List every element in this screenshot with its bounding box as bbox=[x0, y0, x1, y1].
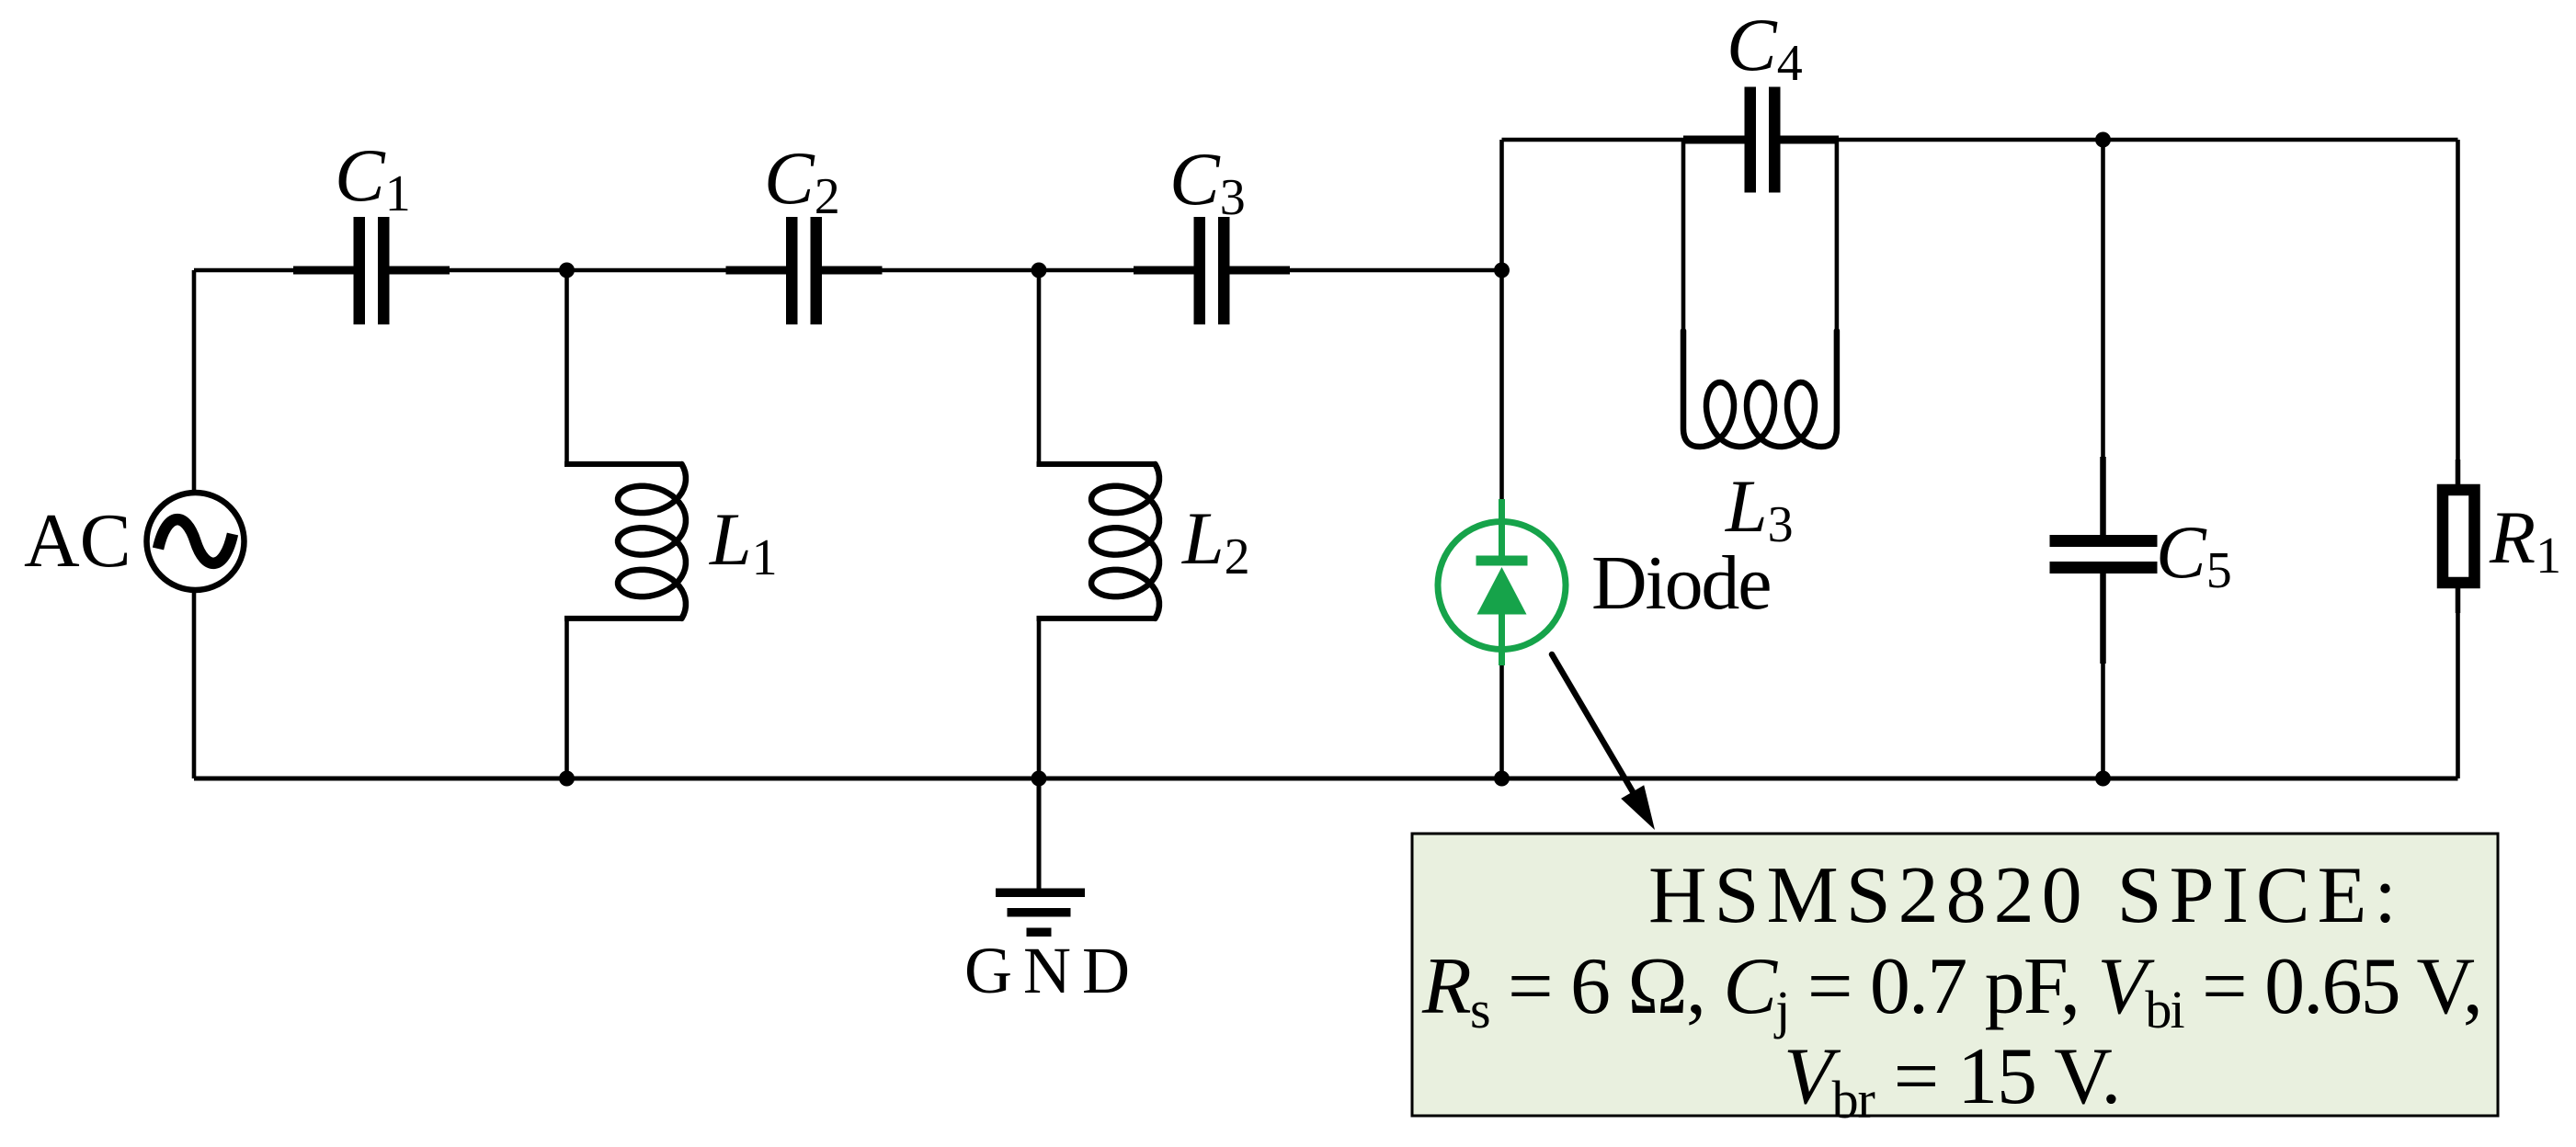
svg-text:Rs = 6 Ω, Cj = 0.7 pF, Vbi = 0: Rs = 6 Ω, Cj = 0.7 pF, Vbi = 0.65 V, bbox=[1421, 942, 2481, 1039]
capacitor C5 leads bbox=[2100, 457, 2106, 664]
node C junction dot bbox=[1494, 263, 1510, 278]
node B junction dot bbox=[1032, 263, 1047, 278]
wire top left horizontal bbox=[194, 268, 365, 273]
SPICE parameter box bbox=[1412, 834, 2498, 1116]
node B bottom junction dot bbox=[1032, 771, 1047, 787]
node C5 bottom junction dot bbox=[2095, 771, 2111, 787]
wire top segment C2-C3 bbox=[811, 268, 1205, 273]
node A bottom junction dot bbox=[559, 771, 575, 787]
inductor L1 bbox=[618, 464, 686, 619]
annotation arrow bbox=[1552, 654, 1655, 830]
wire left vertical upper (top rail to AC) bbox=[192, 270, 197, 494]
svg-text:HSMS2820 SPICE:: HSMS2820 SPICE: bbox=[1648, 851, 2404, 940]
capacitor C1 bbox=[293, 217, 450, 324]
wire R1 branch vertical lower bbox=[2456, 588, 2460, 778]
resistor R1 leads bbox=[2456, 460, 2461, 613]
wire C5 branch vertical upper bbox=[2101, 140, 2105, 535]
svg-text:GND: GND bbox=[964, 934, 1141, 1007]
node C5 top junction dot bbox=[2095, 132, 2111, 148]
wire node C riser bbox=[1499, 140, 1504, 270]
wire L3 branch left vertical bbox=[1681, 140, 1686, 335]
capacitor C3 bbox=[1134, 217, 1290, 324]
svg-text:AC: AC bbox=[24, 498, 131, 584]
svg-text:Diode: Diode bbox=[1591, 540, 1770, 626]
capacitor C5 bbox=[2050, 535, 2158, 573]
capacitor C4 bbox=[1683, 87, 1839, 193]
wire bottom rail bbox=[194, 777, 2458, 781]
inductor L3 bbox=[1683, 331, 1837, 447]
inductor L2 bbox=[1091, 464, 1159, 619]
wire top right rail bbox=[1502, 138, 1756, 142]
node A junction dot bbox=[559, 263, 575, 278]
AC source V1 bbox=[147, 493, 245, 590]
wire top segment C1-C2 bbox=[379, 268, 798, 273]
wire C5 branch vertical lower bbox=[2101, 573, 2105, 778]
capacitor C2 bbox=[726, 217, 883, 324]
wire top segment C3-nodeC bbox=[1219, 268, 1502, 273]
wire L1 branch bbox=[564, 270, 682, 778]
node C bottom junction dot bbox=[1494, 771, 1510, 787]
diode D1 bbox=[1438, 270, 1566, 778]
ground GND bbox=[996, 778, 1085, 937]
wire left vertical lower (AC to bottom rail) bbox=[192, 589, 197, 778]
resistor R1 bbox=[2443, 490, 2475, 583]
wire L2 branch bbox=[1037, 270, 1156, 778]
wire top rail right of C4 bbox=[1770, 138, 2458, 142]
wire R1 branch vertical upper bbox=[2456, 140, 2460, 484]
wire L3 branch right vertical bbox=[1835, 140, 1840, 335]
